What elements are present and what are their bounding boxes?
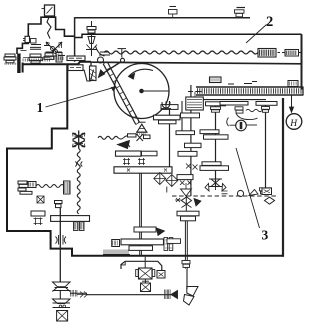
svg-text:1: 1 — [37, 100, 44, 115]
svg-text:2: 2 — [266, 14, 273, 30]
svg-text:3: 3 — [262, 228, 269, 243]
svg-text:H: H — [289, 119, 298, 129]
